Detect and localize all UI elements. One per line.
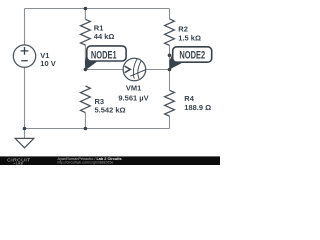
svg-text:NODE2: NODE2 xyxy=(179,50,205,62)
svg-text:R3: R3 xyxy=(95,97,105,106)
svg-text:VM1: VM1 xyxy=(126,84,141,93)
svg-text:http://circuitlab.com/c/gh2888: http://circuitlab.com/c/gh2888265e xyxy=(57,161,113,165)
svg-text:188.9 Ω: 188.9 Ω xyxy=(184,103,211,112)
svg-text:⌁LAB: ⌁LAB xyxy=(14,161,24,165)
svg-text:5.542 kΩ: 5.542 kΩ xyxy=(95,106,126,115)
svg-text:NODE1: NODE1 xyxy=(91,49,117,61)
svg-text:R4: R4 xyxy=(184,94,194,103)
svg-text:1.5 kΩ: 1.5 kΩ xyxy=(178,33,201,42)
svg-text:10 V: 10 V xyxy=(40,59,55,68)
svg-text:44 kΩ: 44 kΩ xyxy=(94,32,115,41)
svg-text:9.561 µV: 9.561 µV xyxy=(118,94,148,103)
